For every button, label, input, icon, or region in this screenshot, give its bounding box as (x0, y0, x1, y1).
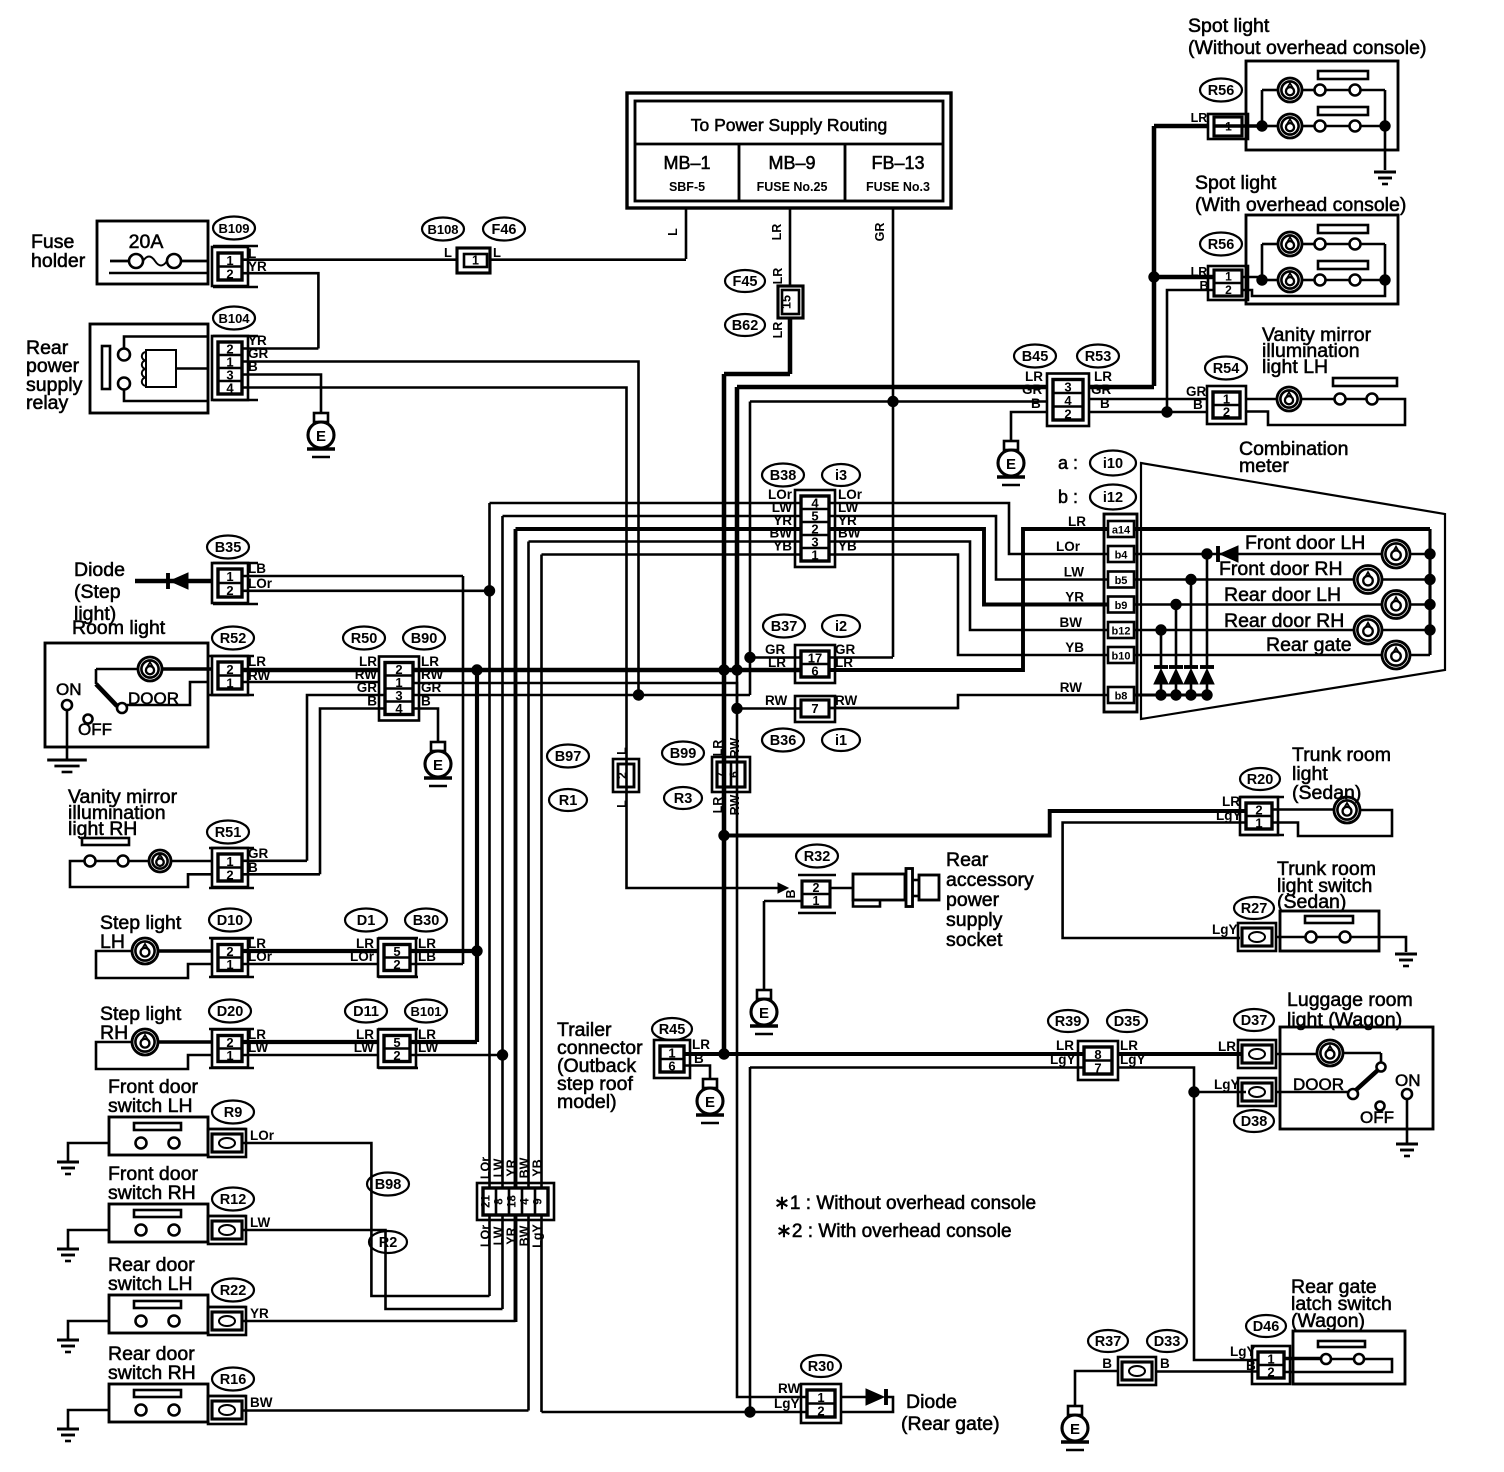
svg-text:D10: D10 (217, 913, 244, 929)
svg-text:B: B (1031, 396, 1041, 411)
svg-text:2: 2 (226, 583, 233, 598)
svg-text:7: 7 (1094, 1060, 1101, 1075)
svg-text:6: 6 (668, 1059, 675, 1074)
svg-text:2: 2 (817, 1403, 824, 1418)
svg-text:Diode: Diode (74, 559, 125, 581)
svg-text:MB–9: MB–9 (768, 153, 815, 173)
svg-text:∗2 : With overhead console: ∗2 : With overhead console (776, 1221, 1012, 1242)
svg-text:D35: D35 (1114, 1014, 1141, 1030)
svg-text:4: 4 (226, 381, 234, 396)
svg-text:RW: RW (728, 738, 742, 759)
svg-text:B30: B30 (413, 913, 440, 929)
svg-text:b5: b5 (1115, 575, 1128, 587)
svg-text:R27: R27 (1241, 901, 1268, 917)
svg-text:LR: LR (1068, 514, 1086, 529)
svg-text:D38: D38 (1241, 1114, 1268, 1130)
svg-text:FB–13: FB–13 (871, 153, 924, 173)
svg-text:LgY: LgY (1212, 922, 1238, 937)
svg-text:LOr: LOr (248, 576, 273, 591)
svg-text:GR: GR (873, 223, 887, 242)
svg-text:holder: holder (31, 250, 86, 272)
svg-text:Rear door LH: Rear door LH (1224, 584, 1341, 606)
svg-text:Spot light: Spot light (1195, 172, 1277, 194)
svg-text:R53: R53 (1085, 349, 1112, 365)
svg-text:accessory: accessory (946, 869, 1034, 891)
svg-text:E: E (433, 757, 443, 774)
svg-text:B99: B99 (670, 746, 697, 762)
svg-text:LR: LR (711, 740, 725, 757)
svg-text:Luggage room: Luggage room (1287, 989, 1413, 1011)
svg-text:Rear gate: Rear gate (1266, 634, 1352, 656)
svg-text:(Without overhead console): (Without overhead console) (1188, 37, 1426, 59)
svg-text:Room light: Room light (72, 617, 166, 639)
svg-text:2: 2 (1064, 406, 1071, 421)
svg-text:E: E (316, 428, 326, 445)
svg-text:21: 21 (481, 1195, 493, 1208)
svg-text:LR: LR (1056, 1038, 1074, 1053)
svg-text:B38: B38 (770, 468, 797, 484)
svg-text:R56: R56 (1208, 237, 1235, 253)
svg-text:6: 6 (811, 664, 818, 679)
svg-text:R22: R22 (220, 1283, 247, 1299)
svg-text:1: 1 (226, 1048, 233, 1063)
svg-text:R56: R56 (1208, 83, 1235, 99)
svg-text:R9: R9 (224, 1105, 243, 1121)
svg-text:B: B (1102, 1356, 1112, 1371)
svg-text:LR: LR (771, 322, 785, 339)
svg-text:switch LH: switch LH (108, 1273, 193, 1295)
svg-text:(Wagon): (Wagon) (1291, 1310, 1365, 1332)
svg-text:∗1 : Without overhead console: ∗1 : Without overhead console (774, 1193, 1036, 1214)
svg-text:8: 8 (494, 1198, 506, 1205)
svg-text:LR: LR (248, 654, 266, 669)
svg-text:B98: B98 (375, 1177, 402, 1193)
svg-text:B62: B62 (732, 318, 759, 334)
svg-text:E: E (1070, 1421, 1080, 1438)
svg-text:YR: YR (1065, 590, 1084, 605)
svg-text:To Power Supply Routing: To Power Supply Routing (691, 115, 888, 135)
svg-text:YB: YB (1065, 640, 1084, 655)
svg-text:b10: b10 (1112, 651, 1131, 663)
svg-text:L: L (615, 800, 629, 808)
svg-text:LOr: LOr (350, 949, 375, 964)
svg-text:LW: LW (354, 1040, 375, 1055)
svg-text:L: L (493, 245, 501, 260)
svg-text:YR: YR (248, 259, 267, 274)
svg-text:(Rear gate): (Rear gate) (901, 1413, 1000, 1435)
svg-text:b9: b9 (1115, 600, 1128, 612)
svg-text:B: B (248, 860, 258, 875)
svg-text:b8: b8 (1115, 691, 1128, 703)
svg-text:R54: R54 (1213, 361, 1240, 377)
svg-text:6: 6 (727, 771, 741, 778)
svg-text:1: 1 (811, 548, 818, 563)
svg-text:meter: meter (1239, 455, 1289, 477)
svg-text:B35: B35 (215, 540, 242, 556)
svg-text:GR: GR (248, 846, 269, 861)
svg-text:R1: R1 (559, 793, 578, 809)
svg-text:b4: b4 (1115, 550, 1129, 562)
svg-text:LgY: LgY (1214, 1077, 1240, 1092)
svg-text:LR: LR (711, 797, 725, 814)
svg-text:LgY: LgY (1230, 1344, 1256, 1359)
svg-text:i10: i10 (1103, 456, 1123, 472)
svg-text:R32: R32 (804, 849, 831, 865)
svg-text:Rear: Rear (946, 849, 989, 871)
svg-text:i2: i2 (835, 619, 847, 635)
svg-text:18: 18 (507, 1195, 519, 1208)
svg-text:1: 1 (226, 569, 233, 584)
svg-text:a14: a14 (1112, 525, 1131, 537)
svg-text:LR: LR (1191, 111, 1208, 125)
svg-text:B: B (784, 889, 798, 898)
svg-text:i12: i12 (1103, 490, 1123, 506)
svg-text:E: E (1006, 456, 1016, 473)
svg-text:B: B (1193, 397, 1203, 412)
svg-text:2: 2 (226, 867, 233, 882)
svg-text:2: 2 (393, 957, 400, 972)
svg-text:RW: RW (728, 795, 742, 816)
svg-text:power: power (946, 889, 1000, 911)
svg-text:i1: i1 (835, 733, 847, 749)
svg-text:2: 2 (226, 266, 233, 281)
svg-text:B104: B104 (218, 311, 250, 326)
svg-text:LR: LR (692, 1037, 710, 1052)
svg-text:4: 4 (395, 701, 403, 716)
svg-text:OFF: OFF (1360, 1108, 1394, 1127)
svg-text:R16: R16 (220, 1372, 247, 1388)
svg-text:YR: YR (250, 1306, 269, 1321)
svg-text:1: 1 (1225, 270, 1232, 284)
svg-text:2: 2 (1223, 405, 1230, 420)
svg-text:relay: relay (26, 392, 69, 414)
svg-text:R30: R30 (808, 1359, 835, 1375)
svg-text:D11: D11 (353, 1004, 379, 1020)
svg-text:B: B (1160, 1356, 1170, 1371)
svg-text:RW: RW (835, 693, 858, 708)
svg-text:OFF: OFF (78, 720, 112, 739)
svg-text:GR: GR (1091, 382, 1112, 397)
svg-text:BW: BW (250, 1395, 273, 1410)
svg-text:Spot light: Spot light (1188, 15, 1270, 37)
svg-text:R37: R37 (1095, 1334, 1122, 1350)
svg-text:MB–1: MB–1 (663, 153, 710, 173)
svg-text:1: 1 (1255, 816, 1262, 831)
svg-text:LOr: LOr (1056, 539, 1081, 554)
svg-text:R2: R2 (379, 1235, 398, 1251)
svg-text:B37: B37 (771, 619, 798, 635)
svg-text:R50: R50 (351, 631, 378, 647)
svg-text:D33: D33 (1154, 1334, 1181, 1350)
svg-text:ON: ON (56, 680, 82, 699)
svg-text:R3: R3 (674, 791, 693, 807)
svg-text:F45: F45 (733, 274, 758, 290)
svg-text:9: 9 (533, 1198, 545, 1204)
svg-text:LB: LB (248, 561, 266, 576)
svg-text:1: 1 (472, 254, 479, 268)
svg-text:LgY: LgY (1050, 1052, 1076, 1067)
svg-text:FUSE No.25: FUSE No.25 (757, 180, 828, 194)
svg-text:L: L (615, 747, 629, 755)
svg-text:Diode: Diode (906, 1391, 957, 1413)
svg-text:1: 1 (226, 675, 233, 690)
svg-text:R51: R51 (215, 825, 242, 841)
svg-text:B90: B90 (411, 631, 438, 647)
svg-text:7: 7 (713, 771, 727, 778)
svg-text:LR: LR (771, 268, 785, 285)
svg-text:a :: a : (1058, 453, 1078, 473)
svg-text:Front door LH: Front door LH (1245, 532, 1365, 554)
svg-text:D1: D1 (357, 913, 376, 929)
svg-text:20A: 20A (129, 231, 164, 253)
svg-text:R39: R39 (1055, 1014, 1082, 1030)
svg-text:ON: ON (1395, 1071, 1421, 1090)
svg-text:GR: GR (1022, 382, 1043, 397)
svg-text:LgY: LgY (774, 1396, 800, 1411)
svg-text:Rear door RH: Rear door RH (1224, 610, 1344, 632)
svg-text:switch LH: switch LH (108, 1095, 193, 1117)
svg-text:switch RH: switch RH (108, 1182, 196, 1204)
svg-text:RW: RW (765, 693, 788, 708)
svg-text:LR: LR (1120, 1038, 1138, 1053)
svg-text:B101: B101 (410, 1004, 441, 1019)
svg-text:b :: b : (1058, 487, 1078, 507)
svg-text:(With overhead console): (With overhead console) (1195, 194, 1406, 216)
svg-text:2: 2 (1267, 1365, 1274, 1380)
svg-text:RW: RW (1060, 680, 1083, 695)
svg-text:R52: R52 (220, 631, 247, 647)
svg-text:1: 1 (226, 957, 233, 972)
svg-text:R20: R20 (1247, 772, 1274, 788)
svg-text:socket: socket (946, 929, 1003, 951)
svg-text:switch RH: switch RH (108, 1362, 196, 1384)
svg-text:F46: F46 (492, 222, 517, 238)
svg-text:YB: YB (838, 539, 857, 554)
svg-text:7: 7 (811, 701, 818, 716)
svg-text:LW: LW (250, 1215, 271, 1230)
svg-text:2: 2 (393, 1048, 400, 1063)
svg-text:LgY: LgY (1216, 808, 1242, 823)
svg-text:L: L (666, 228, 680, 236)
svg-text:B97: B97 (555, 749, 582, 765)
svg-text:1: 1 (813, 894, 820, 908)
svg-text:D37: D37 (1241, 1013, 1268, 1029)
svg-text:SBF-5: SBF-5 (669, 180, 705, 194)
svg-text:15: 15 (780, 295, 794, 309)
svg-text:LOr: LOr (250, 1128, 275, 1143)
svg-text:2: 2 (813, 881, 820, 895)
svg-text:E: E (759, 1005, 769, 1022)
svg-text:R12: R12 (220, 1192, 247, 1208)
svg-text:FUSE No.3: FUSE No.3 (866, 180, 930, 194)
svg-text:L: L (444, 245, 452, 260)
svg-text:D46: D46 (1253, 1319, 1280, 1335)
svg-text:1: 1 (1225, 120, 1232, 134)
svg-text:LR: LR (1218, 1039, 1236, 1054)
svg-text:B36: B36 (770, 733, 797, 749)
svg-text:4: 4 (520, 1198, 532, 1205)
svg-text:model): model) (557, 1091, 617, 1113)
svg-text:R45: R45 (659, 1022, 686, 1038)
svg-text:E: E (705, 1094, 715, 1111)
svg-text:B109: B109 (218, 221, 249, 236)
svg-text:BW: BW (1060, 615, 1083, 630)
svg-text:B45: B45 (1022, 349, 1049, 365)
svg-text:light LH: light LH (1262, 356, 1328, 378)
svg-text:RW: RW (778, 1381, 801, 1396)
svg-text:Front door RH: Front door RH (1219, 558, 1343, 580)
svg-text:(Step: (Step (74, 581, 121, 603)
svg-text:2: 2 (615, 772, 629, 779)
svg-text:LR: LR (770, 224, 784, 241)
svg-text:b12: b12 (1112, 626, 1131, 638)
svg-text:supply: supply (946, 909, 1003, 931)
svg-text:LW: LW (1064, 565, 1085, 580)
svg-text:D20: D20 (217, 1004, 244, 1020)
svg-text:LR: LR (1222, 794, 1240, 809)
svg-text:B108: B108 (427, 222, 458, 237)
svg-text:2: 2 (1225, 283, 1232, 297)
svg-text:i3: i3 (835, 468, 847, 484)
